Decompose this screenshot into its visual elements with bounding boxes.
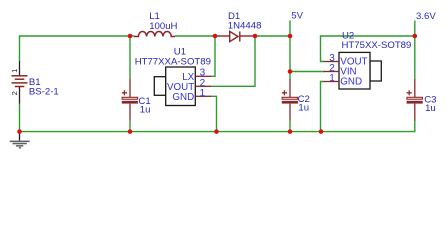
junction node dots xyxy=(17,34,417,134)
wire top rail from battery to L1 xyxy=(20,36,135,61)
svg-text:GND: GND xyxy=(172,92,194,103)
wire riser to U1 pin3 LX xyxy=(210,36,215,76)
wire bottom rail xyxy=(20,120,415,132)
capacitor C3 xyxy=(407,79,423,121)
svg-text:2: 2 xyxy=(10,91,19,95)
wire 5V node to U2 pin2 VIN xyxy=(290,71,325,73)
svg-text:1: 1 xyxy=(329,73,335,84)
wire diode cathode node to 5V node xyxy=(255,35,290,37)
wire U2 pin1 GND drop to bottom rail xyxy=(321,82,325,132)
U1 pin stubs xyxy=(195,76,211,96)
ground xyxy=(10,131,30,148)
regulator U1 HT77XXA-SOT89 body xyxy=(154,67,195,106)
svg-text:1: 1 xyxy=(10,69,19,73)
wire 3.6V stub xyxy=(414,21,416,37)
wire U1 pin1 GND drop to bottom rail xyxy=(210,96,217,131)
diode D1 xyxy=(215,31,255,41)
svg-text:1u: 1u xyxy=(298,103,309,114)
wire C2 bottom xyxy=(289,121,291,132)
svg-text:HT75XX-SOT89: HT75XX-SOT89 xyxy=(342,40,412,51)
svg-text:GND: GND xyxy=(340,77,362,88)
svg-text:HT77XXA-SOT89: HT77XXA-SOT89 xyxy=(135,56,211,67)
wire 5V rail down to C2 xyxy=(289,36,291,79)
regulator U2 HT75XX-SOT89 body xyxy=(339,52,381,89)
svg-text:3.6V: 3.6V xyxy=(416,11,436,22)
wire battery bottom to rail xyxy=(19,103,21,131)
svg-text:100uH: 100uH xyxy=(149,21,177,32)
svg-text:1u: 1u xyxy=(425,103,436,114)
wire 3.6V rail down to C3 xyxy=(414,36,416,79)
wire L1 to diode anode node xyxy=(175,35,215,37)
wire 5V stub xyxy=(289,21,291,37)
battery B1 xyxy=(12,61,28,104)
capacitor C1 xyxy=(122,79,138,121)
inductor L1 xyxy=(134,31,175,36)
wire U1 pin2 VOUT riser to cathode node xyxy=(210,36,255,86)
wire U2 pin3 VOUT riser over IC to 3.6V node xyxy=(321,36,415,62)
svg-text:1: 1 xyxy=(200,88,206,99)
svg-text:5V: 5V xyxy=(291,11,303,22)
wire C1 riser xyxy=(129,36,131,79)
capacitor C2 xyxy=(282,79,298,121)
wire C1 bottom xyxy=(129,121,131,132)
svg-text:1u: 1u xyxy=(140,104,151,115)
U2 pin stubs xyxy=(324,62,340,82)
svg-text:BS-2-1: BS-2-1 xyxy=(29,87,59,98)
svg-text:1N4448: 1N4448 xyxy=(228,20,262,31)
